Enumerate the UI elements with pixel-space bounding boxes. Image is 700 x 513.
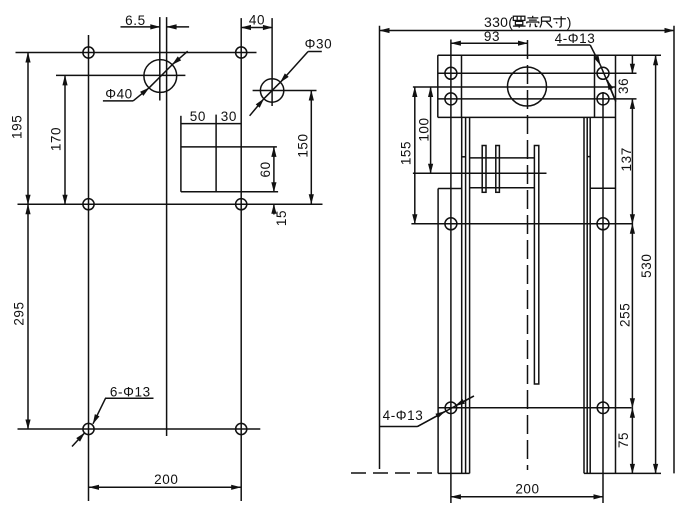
svg-text:75: 75 xyxy=(616,432,631,448)
svg-text:137: 137 xyxy=(619,147,634,171)
svg-text:40: 40 xyxy=(249,13,265,28)
svg-text:155: 155 xyxy=(399,141,414,165)
svg-text:100: 100 xyxy=(417,117,432,141)
svg-text:255: 255 xyxy=(618,303,633,327)
svg-text:30: 30 xyxy=(221,109,237,124)
svg-text:195: 195 xyxy=(9,115,24,139)
svg-text:15: 15 xyxy=(274,210,289,226)
svg-text:4-Φ13: 4-Φ13 xyxy=(383,408,424,423)
svg-text:93: 93 xyxy=(484,29,500,44)
svg-text:200: 200 xyxy=(154,472,178,487)
svg-text:330(: 330( xyxy=(484,14,513,30)
svg-text:60: 60 xyxy=(258,161,273,177)
svg-text:150: 150 xyxy=(296,133,311,157)
svg-text:50: 50 xyxy=(190,109,206,124)
svg-text:530: 530 xyxy=(639,254,654,278)
svg-text:36: 36 xyxy=(616,78,631,94)
svg-text:6.5: 6.5 xyxy=(125,13,146,28)
svg-text:200: 200 xyxy=(515,482,539,497)
svg-text:295: 295 xyxy=(12,301,27,325)
svg-text:170: 170 xyxy=(49,127,64,151)
svg-text:Φ30: Φ30 xyxy=(305,37,333,52)
svg-text:6-Φ13: 6-Φ13 xyxy=(110,384,151,399)
svg-text:Φ40: Φ40 xyxy=(105,86,133,101)
svg-text:): ) xyxy=(567,14,572,30)
svg-text:4-Φ13: 4-Φ13 xyxy=(555,31,596,46)
